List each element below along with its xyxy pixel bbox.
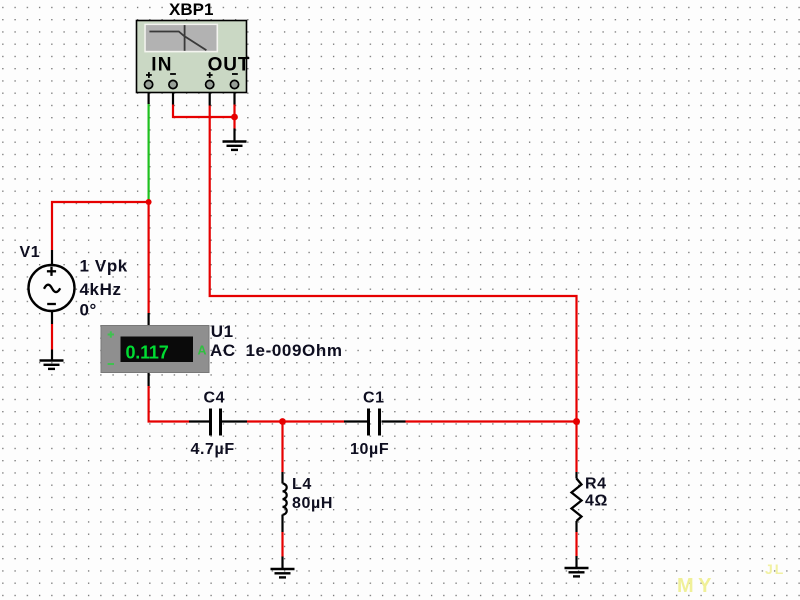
svg-text:10µF: 10µF	[350, 441, 389, 458]
svg-text:1e-009Ohm: 1e-009Ohm	[246, 341, 343, 360]
svg-text:A: A	[198, 344, 207, 358]
svg-text:4.7µF: 4.7µF	[191, 441, 235, 458]
svg-text:OUT: OUT	[208, 55, 251, 76]
svg-text:AC: AC	[210, 341, 236, 360]
svg-text:C4: C4	[204, 390, 226, 407]
svg-text:R4: R4	[585, 476, 607, 493]
svg-text:4Ω: 4Ω	[585, 493, 608, 510]
svg-text:IN: IN	[151, 55, 172, 76]
svg-text:4kHz: 4kHz	[80, 280, 122, 299]
svg-text:L4: L4	[292, 476, 312, 493]
svg-text:JL: JL	[765, 561, 785, 577]
svg-text:U1: U1	[211, 322, 234, 341]
svg-text:XBP1: XBP1	[169, 0, 213, 19]
svg-text:V1: V1	[20, 244, 41, 261]
svg-text:MY: MY	[677, 575, 716, 597]
svg-text:80µH: 80µH	[292, 495, 333, 512]
svg-text:1 Vpk: 1 Vpk	[80, 257, 128, 276]
svg-text:0.117: 0.117	[125, 343, 168, 363]
svg-text:0°: 0°	[80, 301, 97, 320]
svg-text:C1: C1	[363, 390, 385, 407]
